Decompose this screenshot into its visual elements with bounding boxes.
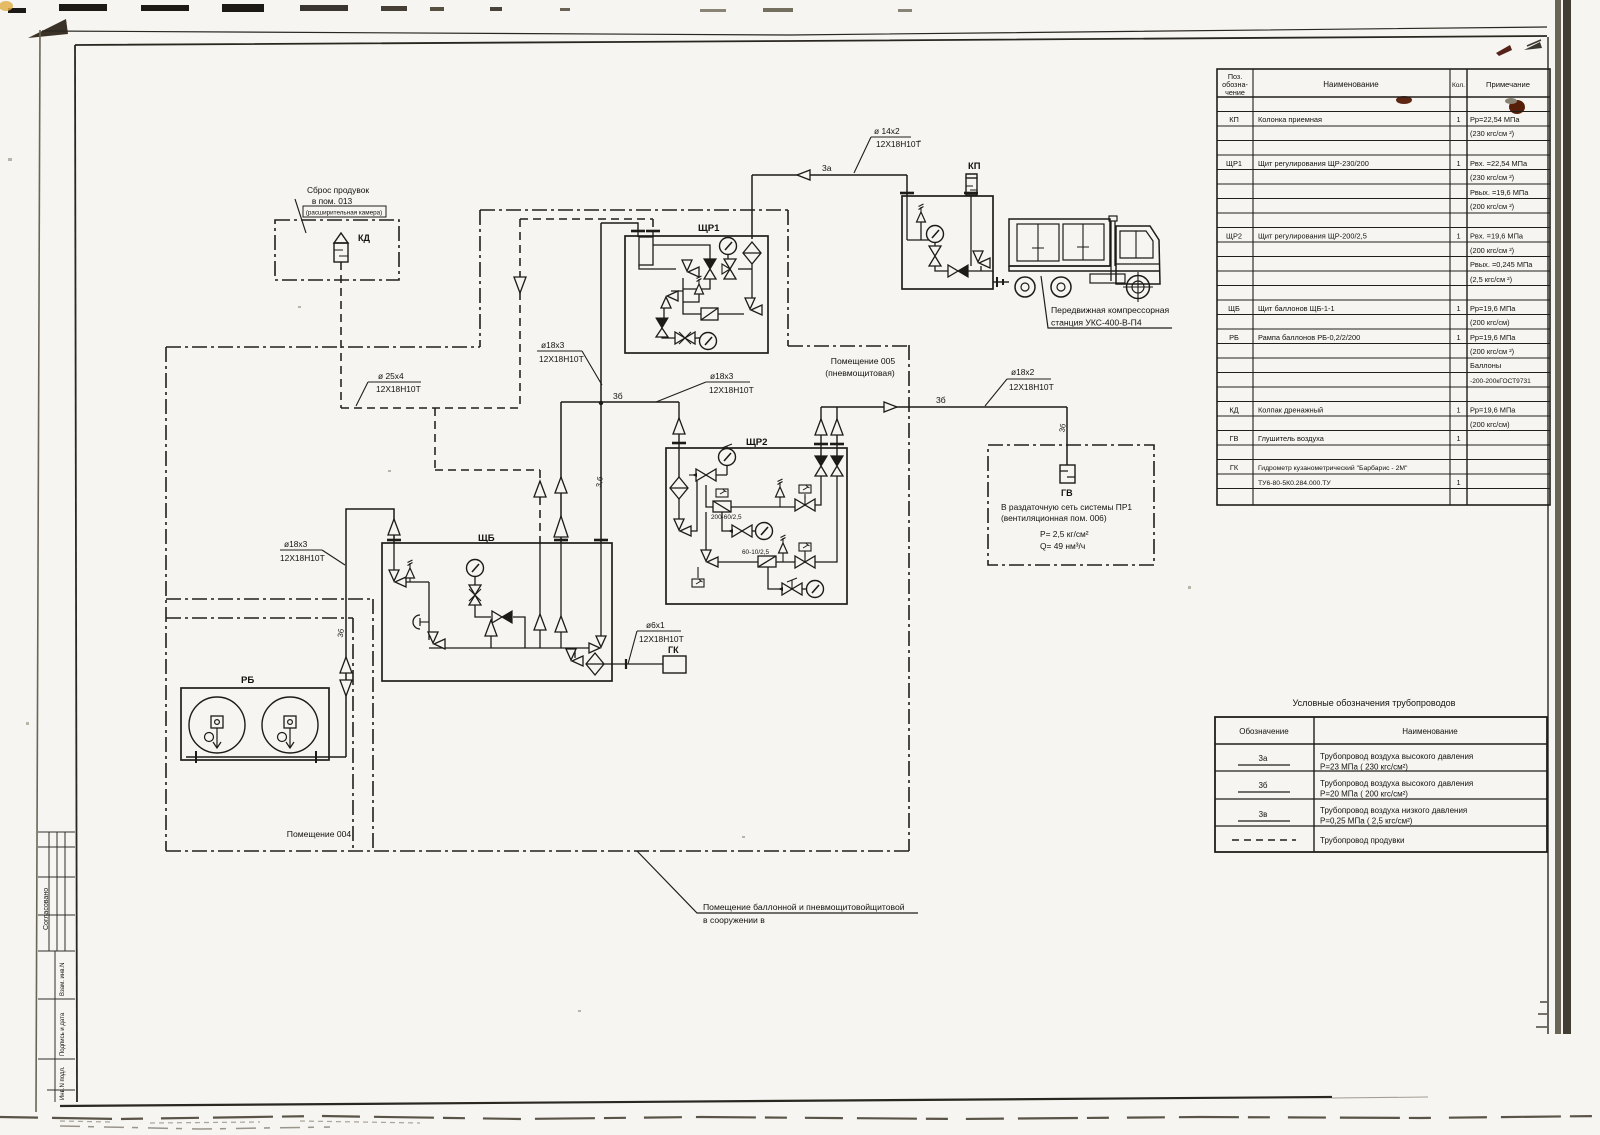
three-way valve ЩБ bbox=[469, 585, 481, 605]
outer thin top line bbox=[42, 27, 1547, 35]
svg-text:(200 кгс/см ²): (200 кгс/см ²) bbox=[1470, 347, 1514, 356]
svg-text:12Х18Н10Т: 12Х18Н10Т bbox=[1009, 382, 1054, 392]
svg-text:ЩР2: ЩР2 bbox=[1226, 232, 1242, 241]
svg-text:КД: КД bbox=[1229, 406, 1238, 415]
blowdown riser to funnel bbox=[519, 219, 521, 278]
room 004 wall horizontal bbox=[166, 617, 353, 619]
room 005 boundary top bbox=[480, 209, 788, 211]
svg-text:чение: чение bbox=[1225, 88, 1245, 97]
low stage shut-off valve bbox=[795, 556, 815, 568]
svg-text:3а: 3а bbox=[1259, 754, 1268, 763]
svg-text:ø 14х2: ø 14х2 bbox=[874, 126, 900, 136]
svg-text:Условные обозначения трубопр: Условные обозначения трубопроводов bbox=[1293, 698, 1456, 708]
cylinder 1 bbox=[189, 697, 245, 753]
right frame foot ticks bbox=[1536, 1002, 1547, 1027]
svg-text:1: 1 bbox=[1456, 232, 1460, 241]
wire: reducer out right bbox=[731, 506, 795, 508]
svg-text:Передвижная компрессорная: Передвижная компрессорная bbox=[1051, 305, 1170, 315]
room 005 boundary riser bbox=[479, 210, 481, 347]
svg-text:Р=20 МПа ( 200 кгс/см²): Р=20 МПа ( 200 кгс/см²) bbox=[1320, 790, 1408, 799]
wire: relief branch bbox=[683, 294, 699, 302]
parts list table bbox=[1217, 69, 1550, 505]
cylinder 2 bbox=[262, 697, 318, 753]
elbow valve 2 in ЩР1 bbox=[661, 291, 678, 308]
main frame top bbox=[75, 36, 1547, 45]
safety relief in ЩР1 bbox=[695, 276, 704, 294]
svg-text:РБ: РБ bbox=[241, 675, 254, 686]
legend row blowdown bbox=[1232, 839, 1296, 841]
gauge in ЩР1 top bbox=[720, 238, 737, 255]
svg-text:3б: 3б bbox=[613, 391, 623, 401]
check valves on ramp riser bbox=[340, 657, 352, 673]
right window bbox=[1063, 224, 1104, 260]
first stage shut-off valve with arrow bbox=[696, 469, 716, 481]
check valve ЩР2 inlet bbox=[673, 418, 685, 434]
wire: reducer to elbow3 bbox=[718, 313, 744, 315]
wire 3a drop into ЩР1 bbox=[751, 175, 753, 239]
wire: elbow drop bbox=[980, 266, 982, 271]
check valves on ЩБ feed bbox=[555, 477, 567, 493]
relief stem bbox=[779, 497, 781, 507]
svg-text:(200 кгс/см): (200 кгс/см) bbox=[1470, 318, 1510, 327]
shut-off valve in КП (vertical) bbox=[929, 246, 941, 266]
wire: after reducer bbox=[513, 617, 525, 648]
svg-text:ø18х3: ø18х3 bbox=[710, 371, 734, 381]
main frame right bbox=[1547, 37, 1549, 1034]
blowdown check valve bbox=[534, 481, 546, 497]
svg-text:1: 1 bbox=[1456, 333, 1460, 342]
svg-text:1: 1 bbox=[1456, 434, 1460, 443]
receiver vessel bbox=[638, 231, 653, 237]
room 005 inner wall horizontal bbox=[166, 598, 373, 600]
manometer ГК box bbox=[663, 656, 686, 673]
svg-text:Рвх. =19,6 МПа: Рвх. =19,6 МПа bbox=[1470, 232, 1524, 241]
svg-text:Р= 2,5 кг/см²: Р= 2,5 кг/см² bbox=[1040, 529, 1089, 539]
relief valve mid bbox=[776, 479, 785, 497]
wire: outlet run to down pipe bbox=[601, 223, 638, 231]
pressure reducer 60-10/2,5 bbox=[758, 556, 776, 567]
svg-text:(200 кгс/см): (200 кгс/см) bbox=[1470, 420, 1510, 429]
ink blot marks bbox=[1396, 96, 1412, 104]
svg-text:12Х18Н10Т: 12Х18Н10Т bbox=[280, 553, 325, 563]
room 005 boundary top-right bbox=[788, 345, 909, 347]
svg-text:Щит баллонов ЩБ-1-1: Щит баллонов ЩБ-1-1 bbox=[1258, 304, 1335, 313]
wire: bottom drain run bbox=[662, 336, 675, 338]
blowdown drop into ЩР1 bbox=[652, 219, 654, 231]
svg-text:Щит регулирования ЩР-200/2,5: Щит регулирования ЩР-200/2,5 bbox=[1258, 232, 1367, 241]
svg-text:(230 кгс/см ²): (230 кгс/см ²) bbox=[1470, 173, 1514, 182]
cab bbox=[1116, 226, 1160, 284]
wire: ЩР1 feed continue bbox=[600, 543, 602, 637]
distribution network enclosure bbox=[988, 445, 1154, 565]
flange on outlet bbox=[625, 659, 627, 669]
wire: column drop bbox=[970, 195, 972, 266]
flange tick outlet riser 1 bbox=[814, 443, 828, 445]
wire: receiver bottom out bbox=[639, 265, 676, 269]
svg-text:В раздаточную сеть системы: В раздаточную сеть системы ПР1 bbox=[1001, 502, 1132, 512]
wire: drop to air silencer bbox=[1066, 407, 1068, 465]
blowdown funnel bbox=[514, 277, 526, 293]
svg-text:Колпак дренажный: Колпак дренажный bbox=[1258, 406, 1323, 415]
svg-text:ø18х3: ø18х3 bbox=[541, 340, 565, 350]
bottom paper edge dashes bbox=[0, 1116, 1600, 1119]
svg-text:ГК: ГК bbox=[1230, 463, 1239, 472]
wire: riser from manifold to y617 line bbox=[490, 636, 492, 648]
right scan band bbox=[1555, 0, 1561, 1034]
flange tick on 3a entry bbox=[900, 192, 914, 194]
drain valve with gauge bbox=[782, 583, 802, 595]
wire: inlet drop bbox=[907, 196, 921, 240]
blowdown top run to panel ЩР1 bbox=[520, 218, 653, 220]
wire 3a drop to КП bbox=[906, 175, 908, 196]
blowdown check valve inside ЩБ bbox=[534, 614, 546, 630]
flange tick on КП column line bbox=[964, 192, 978, 194]
blowdown branch down to ЩБ bbox=[434, 408, 436, 470]
top-right small mark bbox=[1524, 42, 1542, 50]
corner elbow left ЩБ bbox=[428, 632, 445, 649]
check valve outlet riser 2 bbox=[831, 419, 843, 435]
svg-text:3б: 3б bbox=[936, 395, 946, 405]
truck label leader bbox=[1041, 276, 1172, 328]
svg-text:(200 кгс/см ²): (200 кгс/см ²) bbox=[1470, 202, 1514, 211]
pipe label ø6х1 bbox=[628, 620, 684, 664]
wire: bottom manifold bbox=[429, 647, 597, 649]
note leader bbox=[295, 199, 306, 233]
wire: elbow out to header bbox=[406, 581, 429, 583]
exhaust stack bbox=[1111, 221, 1115, 281]
svg-text:РБ: РБ bbox=[1229, 333, 1239, 342]
pressure reducer in ЩР1 bbox=[701, 308, 718, 320]
svg-text:Гидрометр кузанометрический: Гидрометр кузанометрический "Барбарис - … bbox=[1258, 464, 1408, 472]
cap plug ЩБ bbox=[413, 615, 420, 629]
svg-text:60-10/2,5: 60-10/2,5 bbox=[742, 549, 769, 556]
outlet risers bbox=[821, 407, 837, 456]
wire: drop to filter bbox=[574, 648, 576, 658]
wire: filter to outlet bbox=[604, 663, 663, 665]
corner elbow right ЩБ bbox=[589, 636, 606, 653]
wire: reducer drop to second stage bbox=[722, 512, 733, 531]
scan top torn-edge dashes bbox=[0, 1, 912, 13]
main frame bottom bbox=[60, 1097, 1332, 1106]
wire: regulator bottom to cross bbox=[683, 279, 710, 289]
svg-text:Рампа баллонов РБ-0,2/2/200: Рампа баллонов РБ-0,2/2/200 bbox=[1258, 333, 1360, 342]
svg-text:1: 1 bbox=[1456, 406, 1460, 415]
check valve outlet riser 1 bbox=[815, 419, 827, 435]
wire: elbow2 link bbox=[671, 290, 683, 292]
svg-text:Помещение баллонной и пневм: Помещение баллонной и пневмощитовойщитов… bbox=[703, 902, 905, 912]
relief stem bbox=[409, 578, 411, 582]
svg-text:Помещение 004: Помещение 004 bbox=[287, 829, 352, 839]
svg-text:Колонка приемная: Колонка приемная bbox=[1258, 115, 1322, 124]
pipe label ø25х4 bbox=[356, 371, 421, 406]
elbow valve in КП bbox=[973, 251, 990, 268]
building label leader bbox=[637, 851, 918, 913]
svg-text:Щит регулирования ЩР-230/200: Щит регулирования ЩР-230/200 bbox=[1258, 159, 1369, 168]
elbow valve 3 in ЩР1 bbox=[745, 298, 762, 315]
svg-text:Р=23 МПа ( 230 кгс/см²): Р=23 МПа ( 230 кгс/см²) bbox=[1320, 763, 1408, 772]
svg-text:-200-200кГОСТ9731: -200-200кГОСТ9731 bbox=[1470, 378, 1531, 385]
left paper edge bbox=[36, 30, 40, 1112]
wire: inlet drop into ЩР2 bbox=[678, 402, 680, 479]
svg-text:ГВ: ГВ bbox=[1230, 434, 1239, 443]
svg-text:ЩБ: ЩБ bbox=[1228, 304, 1240, 313]
building boundary bottom wall bbox=[166, 850, 909, 852]
svg-text:КП: КП bbox=[968, 160, 981, 171]
svg-text:ø6х1: ø6х1 bbox=[646, 620, 665, 630]
svg-text:1: 1 bbox=[1456, 478, 1460, 487]
distribution note text bbox=[1001, 502, 1132, 551]
svg-text:Кол.: Кол. bbox=[1452, 82, 1465, 89]
svg-text:Инв.N подл.: Инв.N подл. bbox=[60, 1066, 66, 1100]
wire: ramp riser bbox=[346, 509, 394, 757]
parts table body text bbox=[1226, 115, 1533, 487]
ЩР1 panel box bbox=[625, 236, 768, 353]
wire: gauge T handle bbox=[722, 444, 732, 450]
legend table bbox=[1215, 717, 1547, 852]
pressure gauge in КП bbox=[927, 226, 944, 243]
svg-text:ЩР1: ЩР1 bbox=[698, 223, 720, 234]
svg-text:(пневмощитовая): (пневмощитовая) bbox=[825, 368, 895, 378]
intermediate gauge with valve bbox=[732, 525, 752, 537]
inlet elbow ЩБ bbox=[389, 570, 406, 587]
svg-text:Сброс продувок: Сброс продувок bbox=[307, 185, 369, 195]
svg-text:(200 кгс/см ²): (200 кгс/см ²) bbox=[1470, 246, 1514, 255]
svg-text:Обозначение: Обозначение bbox=[1239, 727, 1289, 736]
drainage cap КД bbox=[334, 233, 348, 262]
ЩБ panel box bbox=[382, 543, 612, 681]
svg-text:Р=0,25 МПа ( 2,5 кгс/см²): Р=0,25 МПа ( 2,5 кгс/см²) bbox=[1320, 817, 1413, 826]
svg-text:Q= 49 нм³/ч: Q= 49 нм³/ч bbox=[1040, 541, 1085, 551]
wire 3a horizontal bbox=[752, 174, 907, 176]
second stage elbow bbox=[701, 550, 718, 567]
svg-text:Наименование: Наименование bbox=[1402, 727, 1458, 736]
svg-text:(расширительная камера): (расширительная камера) bbox=[306, 210, 382, 217]
pipe label ø18х3 (second) bbox=[656, 371, 754, 402]
svg-text:200-60/2,5: 200-60/2,5 bbox=[711, 514, 742, 521]
svg-text:1: 1 bbox=[1456, 304, 1460, 313]
regulator valve vertical (filled) in ЩР1 bbox=[704, 259, 716, 279]
svg-text:12Х18Н10Т: 12Х18Н10Т bbox=[376, 384, 421, 394]
parts table header text bbox=[1222, 72, 1530, 97]
flange tick ЩБ feed left bbox=[554, 539, 568, 541]
ЩР1 internals bbox=[638, 231, 752, 338]
svg-text:Баллоны: Баллоны bbox=[1470, 361, 1501, 370]
wire: 3б header left bbox=[561, 401, 679, 403]
electric contact 2 bbox=[799, 485, 811, 493]
outlet elbow ЩБ bbox=[566, 649, 583, 666]
svg-text:(2,5 кгс/см ²): (2,5 кгс/см ²) bbox=[1470, 275, 1512, 284]
wire: drop into ЩБ left bbox=[560, 402, 562, 543]
wire: bottom run bbox=[921, 240, 993, 271]
svg-text:КД: КД bbox=[358, 233, 370, 243]
svg-text:ø18х3: ø18х3 bbox=[284, 539, 308, 549]
svg-text:12Х18Н10Т: 12Х18Н10Т bbox=[539, 354, 584, 364]
wire: arrow mark bbox=[723, 530, 727, 532]
svg-text:3в: 3в bbox=[1259, 810, 1268, 819]
wire: drop column left bbox=[428, 582, 430, 640]
svg-text:Подпись и дата: Подпись и дата bbox=[60, 1012, 66, 1056]
room labels bbox=[287, 356, 896, 839]
svg-text:1: 1 bbox=[1456, 115, 1460, 124]
wire: left inlet drop bbox=[393, 543, 395, 570]
wire: gauge2 link bbox=[751, 530, 756, 532]
regulator valve in КП bbox=[948, 265, 968, 277]
wheels bbox=[1015, 277, 1035, 297]
svg-text:Трубопровод воздуха высокого: Трубопровод воздуха высокого давления bbox=[1320, 752, 1473, 761]
wire: valve to bottom run bbox=[935, 264, 948, 271]
bottom gauge in ЩР1 bbox=[700, 333, 717, 350]
electric contact 1 bbox=[716, 489, 728, 497]
wire: diamond drop bbox=[751, 262, 753, 305]
svg-text:1: 1 bbox=[1456, 159, 1460, 168]
wire: ЩР1 outlet drop bbox=[600, 223, 602, 543]
svg-text:ø18х2: ø18х2 bbox=[1011, 367, 1035, 377]
svg-text:станция УКС-400-В-П4: станция УКС-400-В-П4 bbox=[1051, 318, 1142, 328]
wire: drop to bottom stage bbox=[705, 512, 707, 550]
svg-text:ГВ: ГВ bbox=[1061, 488, 1073, 498]
feed check valve inside ЩБ bbox=[555, 616, 567, 632]
title block strip (left edge) bbox=[38, 832, 75, 1102]
bottom control valve in ЩР1 bbox=[675, 332, 695, 344]
pipe label ø14х2 bbox=[854, 126, 921, 173]
riser check elbow ЩБ bbox=[485, 620, 497, 636]
wire: valve down to reducer bbox=[706, 485, 713, 507]
building boundary right wall bbox=[908, 345, 910, 851]
scan corner triangle blob bbox=[28, 19, 68, 38]
РБ box bbox=[181, 688, 329, 760]
wire: bottom drain branch bbox=[768, 567, 783, 589]
wire: relief stem bbox=[920, 222, 922, 240]
elsq stem bbox=[804, 494, 806, 499]
flange tick ЩБ feed right bbox=[594, 539, 608, 541]
hose to truck bbox=[993, 277, 1009, 287]
outlet regulator valve 2 bbox=[831, 456, 843, 476]
wire: to shut valve bbox=[689, 474, 696, 476]
electric contact 4 bbox=[692, 579, 704, 587]
svg-text:Рвых. =19,6 МПа: Рвых. =19,6 МПа bbox=[1470, 188, 1529, 197]
svg-text:ЩР1: ЩР1 bbox=[1226, 159, 1242, 168]
svg-text:в пом. 013: в пом. 013 bbox=[312, 196, 353, 206]
wire: gauge stem bbox=[934, 243, 936, 248]
top-right pen mark bbox=[1496, 45, 1512, 56]
svg-text:Рвых. =0,245 МПа: Рвых. =0,245 МПа bbox=[1470, 260, 1533, 269]
room 005 boundary drop bbox=[787, 210, 789, 346]
paper specks bbox=[8, 140, 1191, 1012]
ЩБ internals bbox=[394, 543, 663, 664]
svg-text:ЩР2: ЩР2 bbox=[746, 437, 768, 448]
relief valve ЩБ bbox=[406, 560, 415, 578]
inlet filter ЩР2 bbox=[670, 477, 688, 499]
wire: 3b feed continue bbox=[560, 543, 562, 616]
electric contact 3 bbox=[799, 543, 811, 551]
blowdown header horizontal bbox=[341, 407, 520, 409]
svg-text:12Х18Н10Т: 12Х18Н10Т bbox=[639, 634, 684, 644]
room 004 wall vertical bbox=[352, 618, 354, 851]
regulator valve ЩБ (half filled) bbox=[492, 611, 512, 623]
wire: after valve to riser bbox=[815, 476, 821, 505]
shut-off three-way valve in ЩР1 bbox=[724, 259, 736, 279]
КП cylinder symbol bbox=[966, 174, 977, 195]
КП panel box bbox=[902, 196, 993, 289]
air silencer ГВ bbox=[1060, 465, 1075, 483]
svg-text:Наименование: Наименование bbox=[1323, 80, 1379, 89]
flow arrow 3a bbox=[797, 170, 810, 180]
svg-text:Примечание: Примечание bbox=[1486, 80, 1530, 89]
svg-text:Рр=19,6 МПа: Рр=19,6 МПа bbox=[1470, 304, 1516, 313]
svg-text:12Х18Н10Т: 12Х18Н10Т bbox=[709, 385, 754, 395]
relief valve low bbox=[779, 535, 788, 553]
ЩР2 internals bbox=[679, 444, 837, 589]
ramp manifold bbox=[186, 751, 346, 763]
blowdown line from KD cap bbox=[340, 262, 342, 408]
room 005 inner wall vertical bbox=[372, 599, 374, 851]
svg-text:Рр=19,6 МПа: Рр=19,6 МПа bbox=[1470, 406, 1516, 415]
wire: three-way to diamond line bbox=[738, 268, 752, 270]
svg-text:ТУ6-80-5К0.284.000.ТУ: ТУ6-80-5К0.284.000.ТУ bbox=[1258, 480, 1331, 487]
flange tick inlet b bbox=[646, 230, 660, 232]
wire: blowdown entry inside bbox=[539, 543, 541, 614]
pipe label ø18х3 (first) bbox=[537, 340, 602, 385]
mid shut-off valve bbox=[795, 499, 815, 511]
room 005 boundary top-left bbox=[166, 346, 480, 348]
first stage gauge bbox=[719, 449, 736, 466]
svg-text:Глушитель воздуха: Глушитель воздуха bbox=[1258, 434, 1325, 443]
svg-text:Рр=22,54 МПа: Рр=22,54 МПа bbox=[1470, 115, 1520, 124]
elbow valve in ЩР1 bbox=[682, 260, 699, 277]
svg-text:3а: 3а bbox=[822, 163, 832, 173]
safety valve in КП bbox=[917, 204, 926, 222]
КП internals bbox=[907, 195, 993, 271]
chassis bbox=[1009, 266, 1160, 271]
svg-text:3б: 3б bbox=[1258, 781, 1267, 790]
cargo body bbox=[1009, 219, 1110, 266]
wire: elsq3 drop bbox=[697, 567, 699, 578]
svg-text:в сооружении в: в сооружении в bbox=[703, 915, 765, 925]
svg-text:Рр=19,6 МПа: Рр=19,6 МПа bbox=[1470, 333, 1516, 342]
wire: top run to regulator bbox=[653, 245, 710, 259]
svg-text:12Х18Н10Т: 12Х18Н10Т bbox=[876, 139, 921, 149]
svg-text:Согласовано: Согласовано bbox=[43, 888, 50, 930]
wire: gauge stem bbox=[474, 577, 476, 585]
svg-text:Трубопровод воздуха высокого: Трубопровод воздуха высокого давления bbox=[1320, 779, 1473, 788]
flange tick outlet riser 2 bbox=[830, 443, 844, 445]
wire: three-way to reducer bbox=[475, 605, 491, 617]
svg-text:Трубопровод воздуха низкого: Трубопровод воздуха низкого давления bbox=[1320, 806, 1467, 815]
svg-text:Рвх. =22,54 МПа: Рвх. =22,54 МПа bbox=[1470, 159, 1528, 168]
pressure reducer 200-60/2,5 bbox=[713, 501, 731, 512]
svg-text:ГК: ГК bbox=[668, 645, 679, 655]
svg-text:ø 25х4: ø 25х4 bbox=[378, 371, 404, 381]
outlet regulator valves (filled) bbox=[815, 456, 827, 476]
drainage cap enclosure bbox=[275, 220, 399, 280]
outlet filter ЩБ bbox=[586, 653, 604, 675]
wire: filter to elbow bbox=[678, 497, 680, 519]
filter in ЩР1 top bbox=[743, 242, 761, 264]
wire: elbow to riser bbox=[691, 481, 697, 531]
ЩР2 panel box bbox=[666, 448, 847, 604]
relief2 stem bbox=[782, 553, 784, 562]
wire: elbow2 to reducer2 bbox=[717, 561, 758, 563]
svg-text:(230 кгс/см ²): (230 кгс/см ²) bbox=[1470, 129, 1514, 138]
svg-text:Помещение 005: Помещение 005 bbox=[831, 356, 896, 366]
flange tick ЩР2 inlet bbox=[672, 442, 686, 444]
flange tick inlet a bbox=[631, 230, 645, 232]
wire: after valve2 to riser2 bbox=[815, 476, 837, 562]
wire: elbow1 drop bbox=[683, 278, 701, 314]
inlet elbow ЩР2 bbox=[674, 519, 691, 536]
svg-text:(вентиляционная пом. 006): (вентиляционная пом. 006) bbox=[1001, 513, 1107, 523]
wire: gauge stem bbox=[727, 254, 729, 259]
